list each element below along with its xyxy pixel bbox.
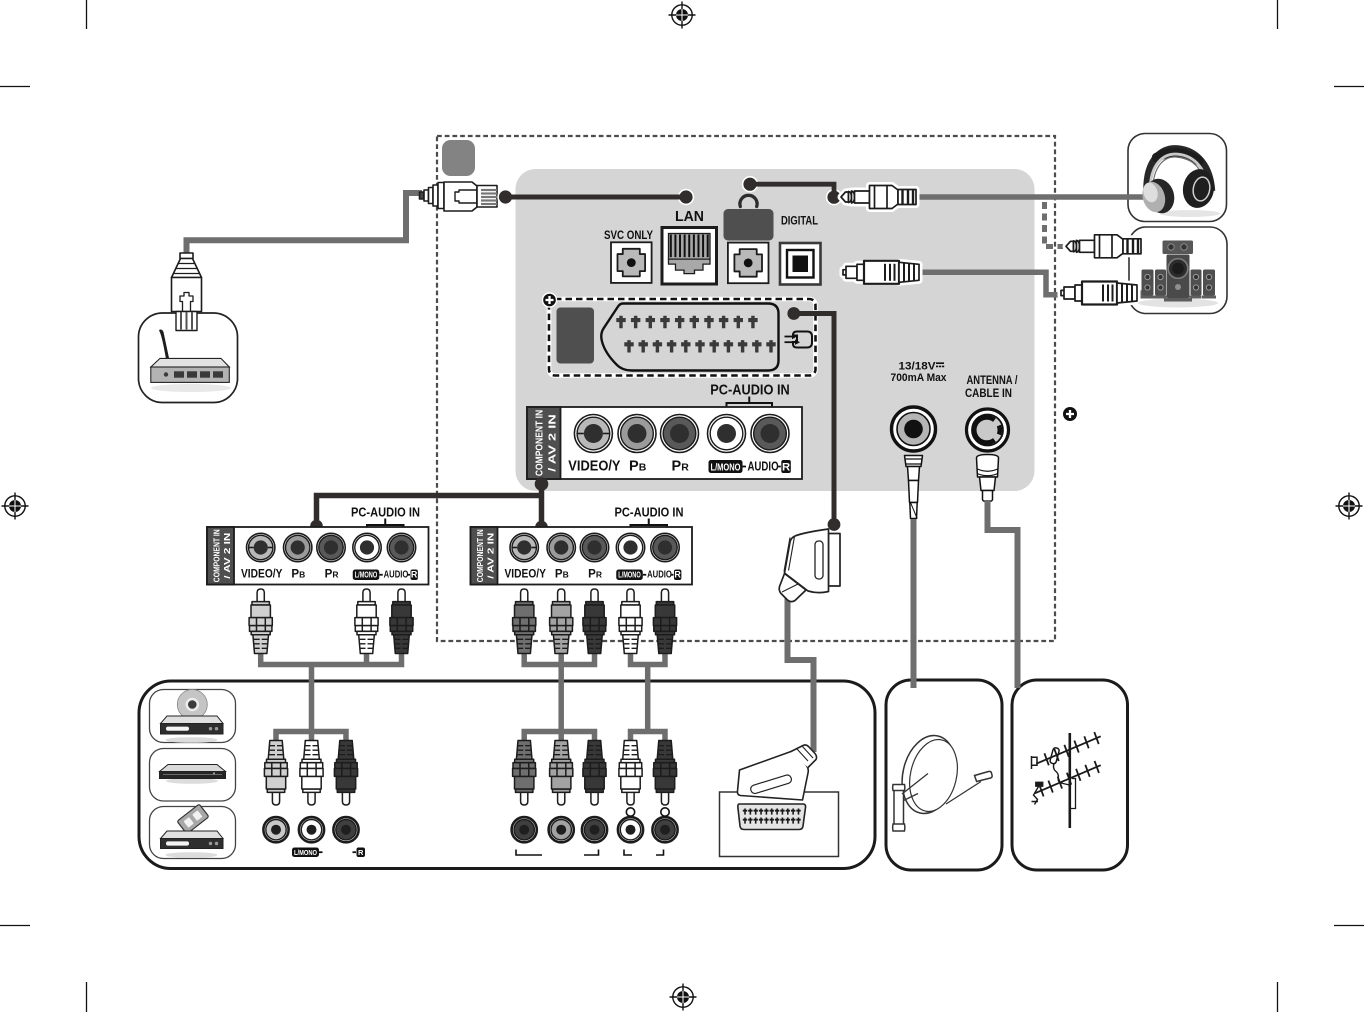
svg-text:B: B xyxy=(639,462,647,474)
device icon slim player xyxy=(150,749,236,802)
svg-text:R: R xyxy=(332,570,338,580)
svg-text:/ AV 2 IN: / AV 2 IN xyxy=(223,532,232,578)
optical cable xyxy=(918,272,1066,295)
RJ45 plug into router xyxy=(172,253,202,331)
antenna box xyxy=(1012,680,1128,870)
svg-text:R: R xyxy=(596,570,602,580)
svg-text:/ AV 2 IN: / AV 2 IN xyxy=(486,532,495,578)
SCART device xyxy=(720,792,839,857)
LAN cable router to plug xyxy=(187,193,423,258)
SCART wire down xyxy=(794,314,834,525)
svg-text:R: R xyxy=(782,462,790,474)
lower plugs left xyxy=(264,741,287,806)
optical digital audio port xyxy=(780,243,821,285)
bottom jacks left xyxy=(263,817,288,842)
cables right bundle xyxy=(524,650,665,742)
svg-text:R: R xyxy=(681,462,689,474)
svg-text:AUDIO: AUDIO xyxy=(384,570,409,581)
toslink plug 2 (to speakers) xyxy=(1120,290,1143,296)
device icon DVD player xyxy=(150,690,236,743)
headphones xyxy=(1139,149,1220,217)
partial label marks xyxy=(516,850,664,856)
phone port xyxy=(728,243,769,284)
svg-text:CABLE IN: CABLE IN xyxy=(965,388,1012,400)
registration mark bottom xyxy=(670,984,697,1011)
svg-text:AUDIO: AUDIO xyxy=(747,459,778,474)
SVC ONLY port xyxy=(611,242,652,283)
5.1 speakers xyxy=(1138,241,1218,308)
dark blank port xyxy=(557,308,595,364)
svg-text:R: R xyxy=(358,848,364,857)
plugs into ext strip right xyxy=(513,589,536,654)
LAN port xyxy=(662,228,717,285)
satellite jack 13/18V xyxy=(892,407,936,451)
headphone symbol xyxy=(740,195,757,206)
router box xyxy=(139,313,238,403)
gray rounded icon square xyxy=(442,140,475,176)
antenna jack xyxy=(967,409,1009,451)
headphones box xyxy=(1128,134,1227,222)
plus marker scart xyxy=(543,293,557,307)
svg-text:ANTENNA /: ANTENNA / xyxy=(967,375,1019,387)
satellite F plug below xyxy=(905,456,923,519)
svg-text:L/MONO: L/MONO xyxy=(355,571,378,580)
small rings above right jacks xyxy=(626,808,634,816)
svg-text:VIDEO/Y: VIDEO/Y xyxy=(505,569,547,581)
svg-text:B: B xyxy=(563,570,569,580)
cables left bundle xyxy=(261,650,402,742)
big dashed boundary box xyxy=(437,136,1055,641)
svg-text:PC-AUDIO IN: PC-AUDIO IN xyxy=(351,505,420,520)
headphone wire xyxy=(742,176,758,192)
headphone jack rect xyxy=(724,209,774,241)
headphone cable to headphones xyxy=(918,194,1146,200)
svg-text:P: P xyxy=(672,459,682,475)
svg-text:AUDIO: AUDIO xyxy=(647,570,672,581)
svg-text:L/MONO: L/MONO xyxy=(294,848,317,857)
AV2 distribution wires xyxy=(539,484,545,527)
svg-text:LAN: LAN xyxy=(675,209,704,225)
toslink plug 1 xyxy=(843,261,919,284)
svg-text:COMPONENT IN: COMPONENT IN xyxy=(476,529,485,582)
satellite dish xyxy=(893,730,993,831)
svg-text:R: R xyxy=(411,570,418,580)
registration mark right xyxy=(1336,493,1363,520)
svg-text:PC-AUDIO IN: PC-AUDIO IN xyxy=(615,505,684,520)
svg-text:COMPONENT IN: COMPONENT IN xyxy=(535,410,546,476)
plus marker right xyxy=(1063,407,1077,421)
svg-text:DIGITAL: DIGITAL xyxy=(781,216,818,228)
antenna plug below xyxy=(977,455,999,502)
ethernet plug at TV LAN xyxy=(420,182,498,211)
svg-text:COMPONENT IN: COMPONENT IN xyxy=(213,529,222,582)
svg-text:L/MONO: L/MONO xyxy=(711,463,741,474)
scart cable to device xyxy=(788,598,814,752)
scart arrow icon xyxy=(785,332,813,348)
bottom jacks right xyxy=(512,817,537,842)
external AV strip right xyxy=(150,527,1101,859)
COMPONENT/AV2 IN strip on TV xyxy=(150,361,1101,859)
plugs into ext strip left xyxy=(249,589,272,654)
device icon VCR xyxy=(150,804,236,858)
3.5mm headphone plug xyxy=(841,186,916,209)
registration mark top xyxy=(669,2,696,29)
svg-text:SVC ONLY: SVC ONLY xyxy=(604,228,653,242)
SCART socket xyxy=(601,304,778,371)
router xyxy=(151,330,231,393)
svg-text:/ AV 2 IN: / AV 2 IN xyxy=(547,414,558,472)
hanging SCART plug xyxy=(779,529,840,602)
external AV strip left xyxy=(150,505,1101,859)
speakers box xyxy=(1129,227,1227,314)
svg-text:700mA Max: 700mA Max xyxy=(891,372,948,384)
svg-text:P: P xyxy=(629,459,639,475)
svg-text:B: B xyxy=(299,570,305,580)
svg-text:13/18V: 13/18V xyxy=(899,361,937,373)
LAN wire with junction dots xyxy=(497,189,513,205)
svg-text:PC-AUDIO IN: PC-AUDIO IN xyxy=(710,382,790,399)
lower plugs right xyxy=(513,741,536,806)
svg-text:VIDEO/Y: VIDEO/Y xyxy=(568,459,620,475)
satellite dish box xyxy=(886,680,1002,870)
3.5mm plug 2 (to speakers) xyxy=(1120,244,1143,250)
svg-text:L/MONO: L/MONO xyxy=(618,571,641,580)
tv aerial antenna xyxy=(1032,732,1101,828)
L/MONO + R labels bottom xyxy=(292,848,319,858)
dashed alt headphone-to-speaker wire xyxy=(1045,202,1064,247)
registration mark left xyxy=(2,493,29,520)
svg-text:VIDEO/Y: VIDEO/Y xyxy=(241,569,283,581)
svg-text:R: R xyxy=(674,570,681,580)
devices box xyxy=(139,681,875,869)
TV back panel xyxy=(516,169,1035,491)
SCART dashed outline xyxy=(549,299,816,376)
